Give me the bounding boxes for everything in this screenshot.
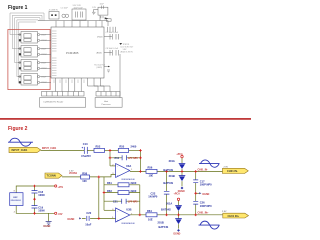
svg-text:TCONN: TCONN: [47, 174, 56, 178]
svg-text:Figure 1: Figure 1: [8, 5, 28, 11]
svg-text:100P NP0: 100P NP0: [200, 183, 212, 187]
svg-text:U3C: U3C: [13, 197, 18, 199]
svg-text:10E: 10E: [148, 217, 153, 221]
svg-text:VIN1P: VIN1P: [41, 34, 47, 36]
svg-text:CH01_IN+: CH01_IN+: [198, 212, 210, 214]
svg-text:C20: C20: [86, 211, 91, 215]
svg-text:+PCA: +PCA: [176, 153, 183, 156]
svg-text:C8 10uF 0.1uF: C8 10uF 0.1uF: [106, 48, 119, 50]
svg-text:BAT54S: BAT54S: [163, 168, 173, 172]
svg-text:LPF NP0: LPF NP0: [128, 202, 138, 204]
svg-text:INPUT_CH01: INPUT_CH01: [12, 148, 28, 152]
svg-text:LPF NP0: LPF NP0: [128, 158, 138, 160]
svg-text:(GND): (GND): [97, 67, 103, 69]
svg-text:2.5V: 2.5V: [69, 170, 74, 172]
svg-text:R55: R55: [119, 145, 124, 149]
svg-text:R61: R61: [107, 181, 112, 185]
svg-text:2k00: 2k00: [131, 181, 137, 185]
svg-text:DGND: DGND: [174, 234, 181, 236]
svg-text:C7 10uF 0.1uF: C7 10uF 0.1uF: [106, 32, 119, 34]
svg-text:PCM1865: PCM1865: [66, 51, 79, 55]
svg-text:VCON1: VCON1: [69, 173, 78, 175]
svg-text:OPA1662AIDGK: OPA1662AIDGK: [121, 222, 136, 225]
svg-text:C21: C21: [113, 200, 118, 204]
svg-text:-: -: [117, 209, 118, 213]
svg-text:+15V: +15V: [58, 187, 64, 189]
svg-text:C1 10uF: C1 10uF: [61, 8, 69, 10]
svg-text:100N: 100N: [38, 209, 44, 213]
svg-text:DGND: DGND: [44, 226, 51, 228]
svg-text:2400: 2400: [131, 145, 137, 149]
svg-text:10uF: 10uF: [85, 222, 91, 226]
svg-text:BAT54S: BAT54S: [161, 208, 171, 212]
svg-text:100N: 100N: [38, 193, 44, 197]
svg-text:R58: R58: [82, 171, 87, 175]
svg-text:INPUT_CH01: INPUT_CH01: [42, 148, 57, 150]
svg-text:C11: C11: [114, 156, 119, 160]
svg-text:100: 100: [82, 179, 87, 183]
svg-text:DGND: DGND: [178, 191, 185, 193]
svg-text:CH01 IN+: CH01 IN+: [228, 214, 240, 218]
svg-text:AVDD: AVDD: [97, 52, 103, 55]
svg-text:BAT54S: BAT54S: [163, 181, 173, 185]
svg-text:Figure 2: Figure 2: [8, 126, 28, 132]
svg-text:201B: 201B: [169, 174, 175, 178]
svg-text:VIN1M: VIN1M: [41, 40, 47, 42]
svg-text:201A: 201A: [169, 159, 175, 163]
svg-text:VIN2P: VIN2P: [41, 48, 47, 50]
svg-text:R52: R52: [96, 145, 101, 149]
svg-text:VIN4P: VIN4P: [41, 76, 47, 78]
svg-text:J5 LINE IN: J5 LINE IN: [49, 10, 59, 12]
svg-text:VIN3P: VIN3P: [41, 62, 47, 64]
svg-text:C13: C13: [83, 142, 88, 146]
svg-text:DVDD: DVDD: [97, 37, 103, 39]
svg-text:100P NP0: 100P NP0: [200, 204, 212, 208]
svg-text:LQWS406 Pin Header: LQWS406 Pin Header: [44, 102, 64, 104]
svg-text:2.5V: 2.5V: [224, 166, 229, 168]
svg-text:VIN2M: VIN2M: [41, 54, 47, 56]
svg-text:DGND: DGND: [68, 219, 75, 221]
svg-text:Processor: Processor: [102, 104, 111, 106]
svg-text:U3A: U3A: [126, 164, 131, 168]
svg-text:DGND: DGND: [203, 194, 210, 196]
svg-text:201B: 201B: [158, 220, 164, 224]
svg-text:-: -: [117, 165, 118, 169]
svg-text:AVDD 3.3V IN: AVDD 3.3V IN: [121, 50, 134, 53]
svg-text:47u/25V: 47u/25V: [81, 154, 91, 158]
svg-text:Host: Host: [104, 100, 109, 103]
svg-text:R56: R56: [148, 166, 153, 170]
svg-text:CH01 IN-: CH01 IN-: [227, 169, 238, 173]
svg-text:201A: 201A: [166, 202, 172, 206]
svg-text:U3B: U3B: [126, 208, 131, 212]
svg-text:VIN4M: VIN4M: [41, 82, 47, 84]
svg-text:R64: R64: [147, 209, 152, 213]
svg-text:R63: R63: [107, 189, 112, 193]
svg-text:-15V: -15V: [58, 214, 63, 216]
svg-text:2.5V: 2.5V: [222, 211, 227, 213]
svg-text:OPA1662AIDGK: OPA1662AIDGK: [121, 178, 136, 181]
svg-text:1N NP0: 1N NP0: [148, 195, 158, 199]
svg-text:CH01_IN-: CH01_IN-: [198, 170, 209, 172]
svg-text:VIN3M: VIN3M: [41, 68, 47, 70]
svg-text:10uF 10uF: 10uF 10uF: [74, 8, 84, 10]
svg-text:BAT54S: BAT54S: [159, 225, 169, 229]
svg-text:10E: 10E: [149, 174, 154, 178]
svg-text:2k00: 2k00: [131, 189, 137, 193]
